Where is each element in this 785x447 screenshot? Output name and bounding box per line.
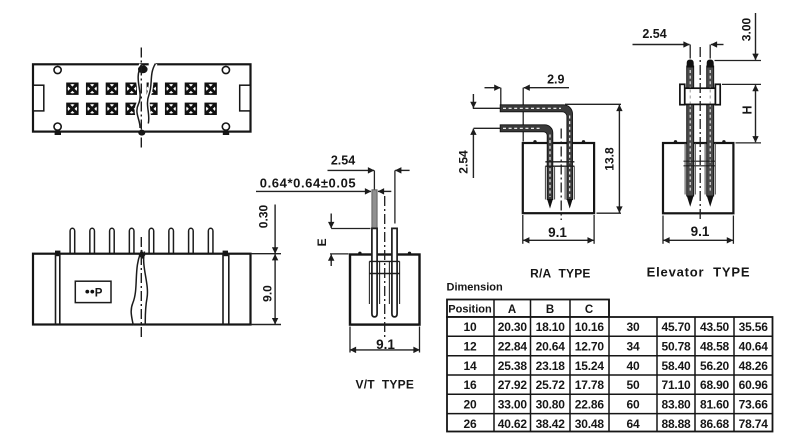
svg-text:56.20: 56.20 (700, 359, 730, 373)
dimension 2.54 text (457, 150, 471, 174)
dimension E arrows (330, 214, 332, 267)
svg-text:0.64*0.64±0.05: 0.64*0.64±0.05 (260, 175, 357, 190)
svg-text:88.88: 88.88 (661, 417, 691, 431)
body top corner dot left (533, 140, 536, 143)
dimension 2.54 centreline extensions (473, 108, 501, 128)
13.8 extension lines (565, 104, 621, 213)
svg-text:35.56: 35.56 (739, 320, 769, 334)
svg-text:40.62: 40.62 (498, 417, 528, 431)
3.00 text (740, 17, 754, 41)
svg-text:20.64: 20.64 (536, 340, 566, 354)
left polarization notch (33, 85, 44, 111)
pin pad row1 col5 (145, 83, 157, 95)
pin pad row2 col6 (165, 103, 177, 115)
bottom-right boss nub (223, 132, 229, 135)
svg-text:48.58: 48.58 (700, 340, 730, 354)
dimension 2.54 text (331, 154, 355, 168)
svg-text:50.78: 50.78 (661, 340, 691, 354)
bottom-left boss nub (55, 132, 61, 135)
dimension 0.30 line (274, 205, 276, 254)
svg-text:30.80: 30.80 (536, 398, 566, 412)
13.8 dimension line (618, 105, 620, 213)
table row lines (447, 336, 773, 413)
svg-text:H: H (741, 105, 755, 114)
centre blob top (138, 65, 148, 73)
svg-text:30.48: 30.48 (575, 417, 605, 431)
svg-text:3.00: 3.00 (740, 17, 754, 41)
9.1 dimension line (350, 349, 420, 351)
svg-text:45.70: 45.70 (661, 320, 691, 334)
side break wavy line right (144, 252, 148, 326)
svg-text:2.9: 2.9 (547, 73, 564, 87)
label dot 2 (90, 290, 94, 294)
body inner line 2 (684, 165, 716, 167)
pin sleeve lines (369, 261, 399, 304)
centre diamond dot (139, 251, 146, 260)
left end cap lines (56, 254, 60, 325)
svg-text:48.26: 48.26 (739, 359, 769, 373)
svg-text:26: 26 (464, 417, 477, 431)
top view body outline (33, 64, 251, 131)
dimension E extension line (330, 229, 371, 254)
H dimension line (755, 85, 757, 142)
dimension 9.0 text (261, 285, 275, 302)
svg-text:30: 30 (627, 320, 640, 334)
table row 1 (464, 320, 769, 334)
svg-text:B: B (546, 304, 554, 316)
svg-text:60: 60 (627, 398, 640, 412)
9.1 text (376, 337, 395, 352)
side pin 5 (149, 228, 154, 254)
body top corner dot left (674, 140, 677, 143)
elevator 9.1 extension lines (663, 216, 733, 244)
pin pad row1 col2 (86, 83, 98, 95)
svg-text:Elevator TYPE: Elevator TYPE (647, 265, 751, 280)
polarity label box (75, 281, 111, 302)
V/T TYPE label (356, 378, 414, 392)
elevator slider bar (680, 84, 720, 104)
extension line body bottom (251, 324, 282, 326)
pin pad row2 col3 (106, 103, 118, 115)
svg-text:C: C (585, 304, 593, 316)
svg-text:25.38: 25.38 (498, 359, 528, 373)
svg-text:22.86: 22.86 (575, 398, 605, 412)
Dimension label (447, 282, 504, 294)
13.8 text (603, 147, 617, 171)
pin pad row1 col6 (165, 83, 177, 95)
svg-text:20.30: 20.30 (498, 320, 528, 334)
table row 5 (464, 398, 769, 412)
mounting hole top-left (54, 66, 61, 73)
elevator 9.1 dimension line (664, 239, 733, 241)
pin pad row2 col7 (185, 103, 197, 115)
svg-text:81.60: 81.60 (700, 398, 730, 412)
side pin 7 (189, 228, 194, 254)
side pin 2 (90, 228, 95, 254)
side pin 4 (129, 228, 134, 254)
svg-text:2.54: 2.54 (331, 154, 355, 168)
elevator body outline (663, 143, 733, 213)
3.00 extension lines (715, 61, 762, 85)
svg-text:9.0: 9.0 (261, 285, 275, 302)
svg-text:23.18: 23.18 (536, 359, 566, 373)
svg-text:A: A (508, 304, 516, 316)
pin pad row2 col5 (145, 103, 157, 115)
side pin 8 (208, 228, 213, 254)
left pin tip (547, 200, 553, 209)
lower pin centreline dashes (503, 128, 550, 197)
pin pad row1 col7 (185, 83, 197, 95)
svg-text:33.00: 33.00 (498, 398, 528, 412)
body top corner dot right (582, 140, 585, 143)
elevator centreline (699, 47, 701, 219)
pin pad row2 col4 (125, 103, 137, 115)
9.1 extension lines (350, 327, 420, 353)
pin sleeve lines (545, 166, 574, 199)
svg-text:27.92: 27.92 (498, 378, 528, 392)
table column lines (494, 300, 734, 432)
right pin tip (567, 200, 573, 209)
V/T body outline (350, 255, 420, 325)
svg-text:E: E (315, 238, 329, 246)
body top corner dot left (358, 252, 361, 255)
table body box (447, 317, 773, 432)
svg-text:50: 50 (627, 378, 640, 392)
svg-text:73.66: 73.66 (739, 398, 769, 412)
Elevator TYPE label (647, 265, 751, 280)
R/A 9.1 extension lines (523, 215, 594, 244)
dimension 2.54 text (642, 27, 666, 41)
svg-text:2.54: 2.54 (457, 150, 471, 174)
svg-text:12: 12 (464, 340, 477, 354)
mounting hole top-right (222, 66, 229, 73)
pin pad row2 col2 (86, 103, 98, 115)
label dot 1 (85, 290, 89, 294)
right through pin (392, 228, 397, 317)
mounting hole bottom-left (54, 123, 61, 130)
dimension E text (315, 238, 329, 246)
svg-text:68.90: 68.90 (700, 378, 730, 392)
pin pad row2 col1 (66, 103, 78, 115)
svg-text:22.84: 22.84 (498, 340, 528, 354)
mounting hole bottom-right (222, 123, 229, 130)
side pin 6 (169, 228, 174, 254)
H text (741, 105, 755, 114)
dimension 0.64 leader lines (256, 190, 391, 192)
pin pad row1 col4 (125, 83, 137, 95)
svg-text:18.10: 18.10 (536, 320, 566, 334)
right end cap lines (223, 254, 229, 325)
break-out white band (137, 62, 156, 130)
svg-text:V/T TYPE: V/T TYPE (356, 378, 414, 392)
svg-text:43.50: 43.50 (700, 320, 730, 334)
svg-text:64: 64 (627, 417, 640, 431)
table header box (447, 300, 609, 318)
centre dot bottom (138, 130, 145, 136)
svg-text:0.30: 0.30 (257, 204, 271, 228)
svg-text:60.96: 60.96 (739, 378, 769, 392)
svg-text:58.40: 58.40 (661, 359, 691, 373)
pin pad row1 col8 (204, 83, 216, 95)
body top corner dot right (408, 252, 411, 255)
R/A TYPE label (530, 267, 590, 281)
dimension 2.9 lines (485, 88, 570, 142)
extension line body top (251, 253, 282, 255)
elevator 9.1 text (691, 224, 710, 239)
table row 2 (464, 340, 769, 354)
svg-text:38.42: 38.42 (536, 417, 566, 431)
break wavy line right (147, 64, 155, 124)
left through pin (372, 228, 377, 317)
svg-text:9.1: 9.1 (376, 337, 395, 352)
R/A body outline (523, 143, 594, 213)
dimension 2.54 lines (633, 45, 724, 59)
H extension line (736, 142, 762, 144)
svg-text:12.70: 12.70 (575, 340, 605, 354)
table row 3 (464, 359, 769, 373)
dimension 2.54 lines (328, 170, 410, 223)
lower right-angle pin (500, 125, 553, 200)
dimension 0.30 text (257, 204, 271, 228)
dimension 2.54 arrows (472, 94, 474, 178)
pin sleeve lines (685, 143, 715, 195)
pin pad row2 col8 (204, 103, 216, 115)
svg-text:10: 10 (464, 320, 477, 334)
R/A 9.1 text (548, 225, 567, 240)
dimension 2.9 text (547, 73, 564, 87)
body inner line 2 (369, 273, 399, 275)
upper pin centreline dashes (503, 108, 570, 197)
break wavy line left (137, 65, 142, 129)
right cap nub (223, 251, 228, 257)
right long pin (707, 60, 714, 207)
svg-text:17.78: 17.78 (575, 378, 605, 392)
svg-text:2.54: 2.54 (642, 27, 666, 41)
svg-text:9.1: 9.1 (548, 225, 567, 240)
3.00 dimension line (755, 13, 757, 60)
right polarization notch (240, 85, 251, 111)
header texts (448, 304, 593, 317)
svg-text:40: 40 (627, 359, 640, 373)
table row 6 (464, 417, 769, 431)
body inner line 1 (545, 161, 574, 163)
svg-text:Position: Position (448, 304, 492, 316)
body top corner dot right (722, 140, 725, 143)
label letter P (95, 287, 103, 299)
svg-text:83.80: 83.80 (661, 398, 691, 412)
pin pad row1 col3 (106, 83, 118, 95)
upper right-angle pin (500, 105, 572, 200)
grey pin upper shank (372, 190, 377, 229)
side break wavy line left (131, 250, 142, 326)
side pin 1 (70, 228, 75, 254)
left long pin (687, 60, 694, 207)
side vertical centreline (140, 237, 142, 337)
R/A 9.1 dimension line (523, 239, 593, 241)
body inner line 1 (369, 260, 399, 262)
side pin 3 (110, 228, 115, 254)
left cap nub (55, 251, 60, 257)
R/A centreline (560, 129, 562, 221)
V/T centreline (384, 196, 386, 340)
svg-text:9.1: 9.1 (691, 224, 710, 239)
svg-text:20: 20 (464, 398, 477, 412)
body inner line 1 (684, 160, 716, 162)
svg-text:Dimension: Dimension (447, 282, 504, 294)
body inner line 2 (545, 165, 574, 167)
svg-text:P: P (95, 287, 103, 299)
dimension 0.64*0.64 text (260, 175, 357, 190)
svg-text:10.16: 10.16 (575, 320, 605, 334)
svg-text:34: 34 (627, 340, 640, 354)
svg-text:13.8: 13.8 (603, 147, 617, 171)
vertical centreline (140, 48, 142, 150)
svg-text:14: 14 (464, 359, 477, 373)
svg-text:25.72: 25.72 (536, 378, 566, 392)
svg-text:86.68: 86.68 (700, 417, 730, 431)
svg-text:71.10: 71.10 (661, 378, 691, 392)
svg-text:40.64: 40.64 (739, 340, 769, 354)
svg-text:15.24: 15.24 (575, 359, 605, 373)
pin pad row1 col1 (66, 83, 78, 95)
svg-text:R/A TYPE: R/A TYPE (530, 267, 590, 281)
svg-text:78.74: 78.74 (739, 417, 769, 431)
table row 4 (464, 378, 769, 392)
side break white band (134, 257, 146, 323)
dimension 9.0 line (274, 254, 276, 324)
svg-text:16: 16 (464, 378, 477, 392)
side view body outline (33, 254, 251, 325)
